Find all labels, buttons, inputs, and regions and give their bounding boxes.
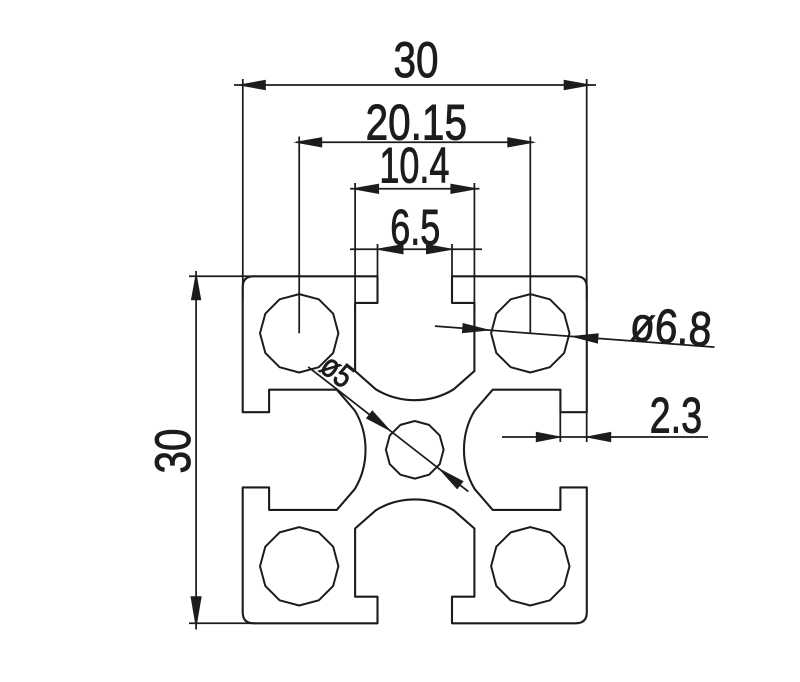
corner bore top-left Ø6.8: [260, 294, 338, 372]
svg-text:6.5: 6.5: [390, 201, 440, 256]
dimension 10.4: dimension line: [350, 188, 479, 190]
dimension 10.4: extension lines: [355, 183, 474, 310]
arrowheads dim 2.3: [536, 432, 563, 442]
arrowheads dim Ø5 at center bore edges: [366, 410, 392, 432]
text 6.5: [390, 201, 440, 256]
dimension 2.3: dimension line: [502, 436, 708, 438]
corner bore bottom-right Ø6.8: [491, 527, 569, 605]
dimension 30 (top overall width): extension lines: [243, 79, 587, 300]
arrowheads dim 30 top: [237, 80, 266, 90]
dimension Ø5: diameter line through center bore: [308, 367, 468, 492]
center bore Ø5: [386, 421, 444, 479]
svg-text:10.4: 10.4: [379, 139, 449, 194]
text Ø6.8: [628, 298, 713, 357]
corner bore bottom-left Ø6.8: [260, 527, 338, 605]
dimension 30 (left overall height): extension lines: [189, 276, 256, 623]
svg-text:30: 30: [393, 32, 438, 88]
dimension 6.5: extension ticks: [378, 244, 453, 280]
profile outline 30x30 extrusion: [243, 276, 587, 623]
text 30 (top): [393, 32, 438, 88]
arrowheads dim Ø6.8 at bore edges: [462, 323, 491, 333]
arrowheads dim 6.5: [375, 244, 404, 254]
arrowheads dim 30 left: [191, 271, 201, 300]
text 10.4: [379, 139, 449, 194]
text 2.3: [650, 388, 702, 443]
text 20.15: [366, 94, 467, 150]
text 30 (left, rotated): [145, 428, 201, 473]
dimension 20.15: dimension line: [296, 141, 533, 143]
dimension 6.5: dimension line: [350, 248, 482, 250]
dimension 2.3: extension lines: [560, 413, 586, 442]
svg-text:2.3: 2.3: [650, 388, 702, 443]
dimension 20.15: extension lines to bore centers: [299, 137, 530, 334]
dimension 30 (left): dimension line: [195, 271, 197, 630]
text Ø5: [313, 348, 360, 396]
arrowheads dim 20.15: [293, 137, 322, 147]
dimension Ø6.8: diameter leader line through top-right bore: [435, 326, 715, 347]
arrowheads dim 10.4: [350, 184, 379, 194]
dimension 30 (top): dimension line: [234, 84, 596, 86]
svg-text:30: 30: [145, 428, 201, 473]
svg-text:ø6.8: ø6.8: [628, 298, 713, 357]
corner bore top-right Ø6.8: [491, 294, 569, 372]
